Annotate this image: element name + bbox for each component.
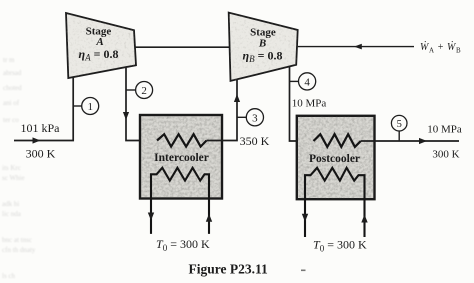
wire: state 3, intercooler outlet up to Stage B (207, 79, 238, 141)
svg-text:ls ch: ls ch (2, 272, 16, 280)
svg-text:300 K: 300 K (432, 149, 459, 161)
svg-text:Postcooler: Postcooler (309, 153, 360, 165)
svg-text:10 MPa: 10 MPa (427, 124, 462, 136)
svg-text:bnc at tnsc: bnc at tnsc (2, 236, 32, 244)
svg-text:ter co: ter co (3, 116, 19, 124)
svg-text:sc Whie: sc Whie (2, 174, 25, 182)
svg-text:4: 4 (304, 76, 310, 88)
arrowhead: water in (up) intercooler (206, 214, 212, 222)
node 5 (391, 115, 407, 141)
arrowhead: flow down into intercooler (123, 112, 129, 120)
svg-text:1: 1 (87, 101, 93, 113)
svg-text:cfn th dnaty: cfn th dnaty (2, 246, 36, 254)
svg-text:2: 2 (141, 85, 147, 97)
resistor zigzag: intercooler gas stream (157, 134, 207, 146)
heat exchanger: Intercooler box (140, 115, 222, 199)
svg-text:ηA = 0.8: ηA = 0.8 (79, 47, 119, 63)
wire: inlet (state 1) to Stage A (14, 78, 73, 141)
arrowhead: water out (down) intercooler (148, 213, 154, 221)
heat exchanger: Postcooler box (297, 116, 375, 199)
arrowhead: inlet flow right (33, 137, 41, 143)
node 2 (126, 82, 153, 99)
svg-text:choted: choted (3, 84, 22, 92)
wire: state 4, Stage B outlet down to postcooler (290, 67, 314, 141)
arrowhead: work flow (points left) (354, 44, 362, 50)
wire: state 5 outlet (361, 140, 459, 142)
node 3 (237, 109, 264, 126)
arrowhead: outlet flow right (419, 138, 427, 144)
svg-text:abrsad: abrsad (3, 69, 22, 77)
margin bleed-through artifacts (left edge) (2, 56, 36, 280)
svg-text:adk hi: adk hi (2, 200, 19, 208)
wire: state 2, Stage A outlet down to intercooler (126, 68, 157, 141)
arrowhead: flow up into Stage B (234, 94, 240, 102)
cooling water loop: postcooler (305, 168, 365, 237)
wire: work input line from Stage B (298, 46, 414, 48)
svg-text:350 K: 350 K (240, 134, 270, 148)
cooling water loop: intercooler (151, 168, 209, 234)
stray mark near caption (301, 270, 306, 272)
svg-text:10 MPa: 10 MPa (292, 98, 327, 110)
svg-text:5: 5 (397, 119, 402, 130)
svg-text:Figure P23.11: Figure P23.11 (189, 262, 268, 277)
compressor Stage B (229, 13, 298, 81)
compressor Stage A (66, 13, 136, 78)
svg-text:ẆA + ẆB: ẆA + ẆB (420, 41, 461, 55)
resistor zigzag: postcooler gas stream (314, 134, 361, 147)
svg-text:101 kPa: 101 kPa (21, 121, 61, 135)
node 1 (73, 98, 99, 115)
svg-text:its Krc: its Krc (2, 164, 21, 172)
svg-text:lic nda: lic nda (2, 210, 22, 218)
arrowhead: water in (up) postcooler (361, 215, 367, 223)
wire: interstage Stage A to Stage B (136, 46, 230, 48)
node 4 (290, 73, 316, 90)
arrowhead: water out (down) postcooler (302, 214, 308, 222)
svg-text:Intercooler: Intercooler (154, 152, 209, 164)
svg-text:tr m: tr m (3, 56, 15, 64)
svg-text:3: 3 (252, 112, 258, 124)
svg-text:300 K: 300 K (26, 147, 56, 161)
svg-text:ani of: ani of (3, 99, 20, 107)
svg-text:ηB = 0.8: ηB = 0.8 (243, 49, 283, 65)
